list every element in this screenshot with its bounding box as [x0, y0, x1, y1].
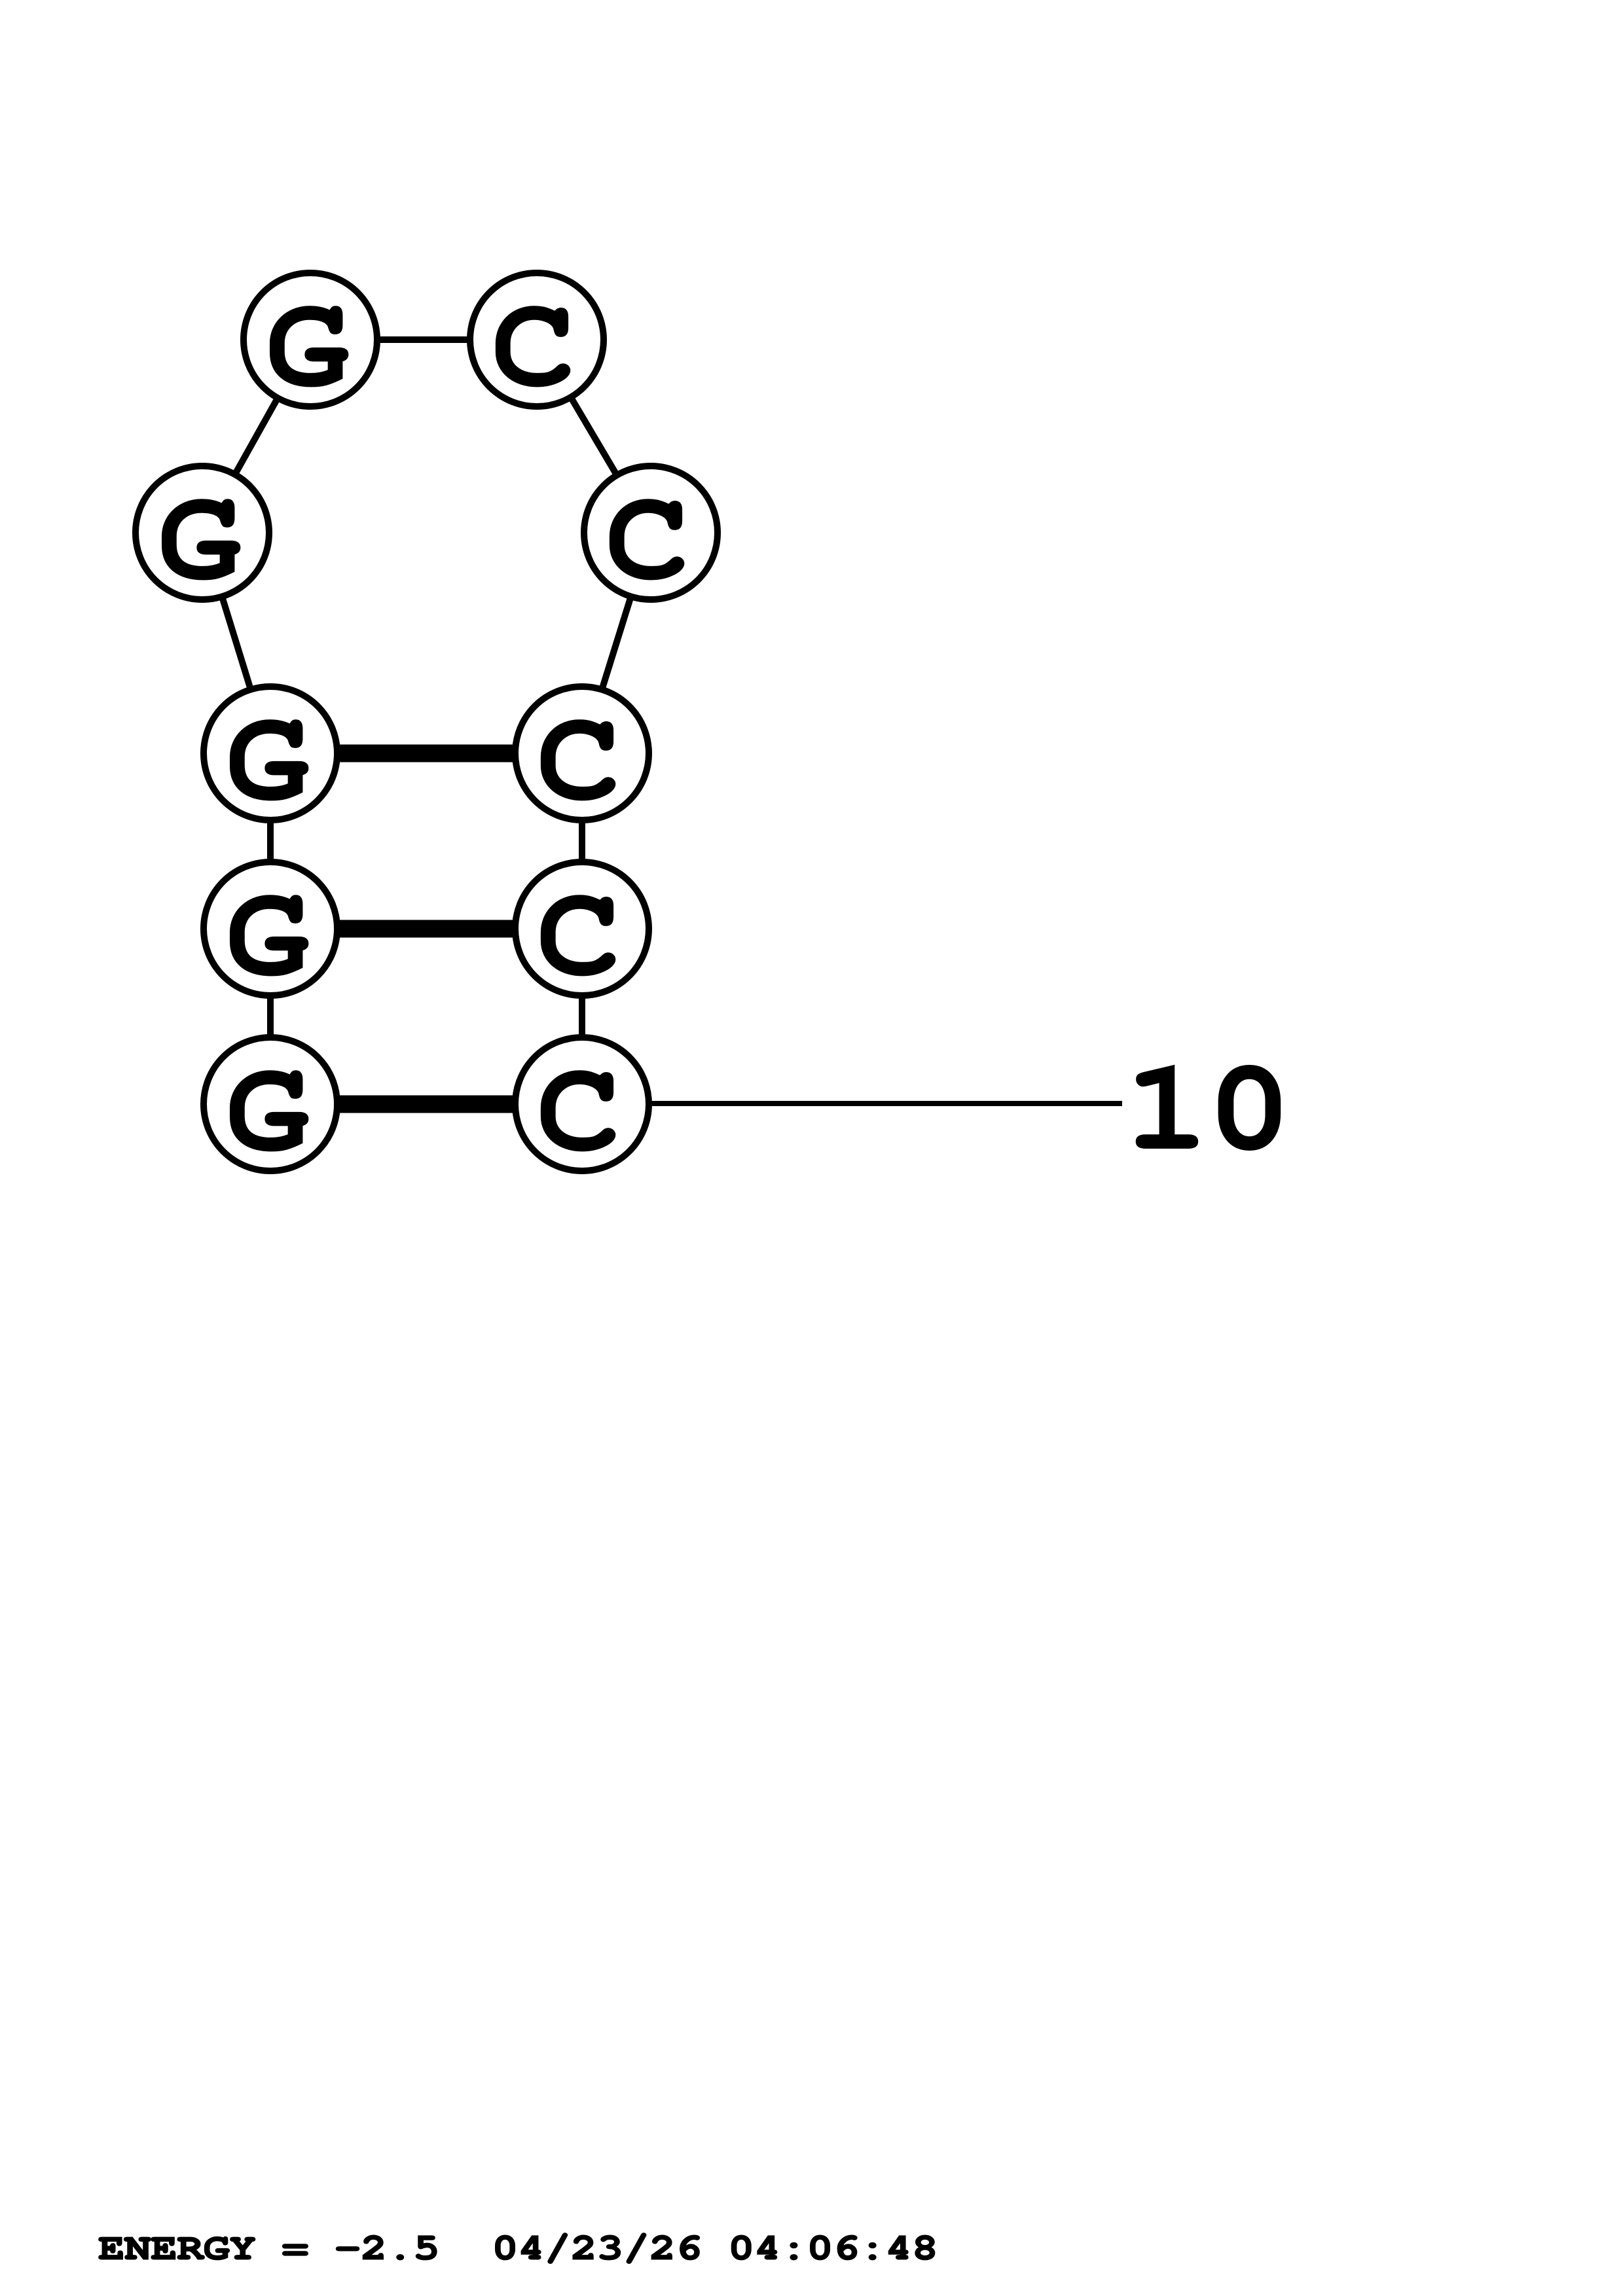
nucleotide circle G1 [244, 273, 377, 406]
nucleotide circle C3 [515, 687, 649, 820]
wire leader line from C5 to position label 10 [582, 1101, 1122, 1106]
base letter G3 [230, 720, 308, 800]
base letter G2 [162, 499, 240, 580]
nucleotide circle C1 [470, 273, 604, 406]
nucleotide circle G2 [136, 466, 269, 600]
nucleotide circle C5 [515, 1037, 649, 1171]
nucleotide circle G3 [204, 687, 337, 820]
wire backbone C4-C5 (stem right lower) [579, 929, 585, 1104]
wire backbone C3-C4 (stem right upper) [579, 753, 585, 929]
wire backbone C2-C3 (loop lower right) [582, 533, 651, 753]
base pair bond G3-C3 [270, 745, 582, 762]
base letter C5 [541, 1071, 615, 1151]
nucleotide circle G5 [204, 1037, 337, 1171]
wire backbone G2-G1 (loop upper left) [202, 340, 310, 533]
base letter C4 [541, 895, 615, 976]
wire backbone G4-G3 (stem left upper) [267, 753, 274, 929]
base letter G4 [230, 895, 308, 976]
base letter C3 [541, 720, 615, 800]
nucleotide circle G4 [204, 862, 337, 996]
base letter C1 [496, 306, 570, 387]
base letter G1 [270, 306, 348, 387]
wire backbone C1-C2 (loop upper right) [537, 340, 651, 533]
sequence position label 10 [1137, 1066, 1280, 1150]
wire backbone G3-G2 (loop lower left) [202, 533, 270, 753]
nucleotide circle C2 [584, 466, 718, 600]
wire backbone G5-G4 (stem left lower) [267, 929, 274, 1104]
base letter C2 [610, 499, 684, 580]
base letter G5 [230, 1071, 308, 1151]
nucleotide circle C4 [515, 862, 649, 996]
base pair bond G4-C4 [270, 920, 582, 938]
wire backbone G1-C1 (top of hairpin loop) [310, 336, 537, 343]
energy caption text: ENERGY = -2.5 04/23/26 04:06:48 [99, 2233, 934, 2263]
base pair bond G5-C5 [270, 1096, 582, 1113]
